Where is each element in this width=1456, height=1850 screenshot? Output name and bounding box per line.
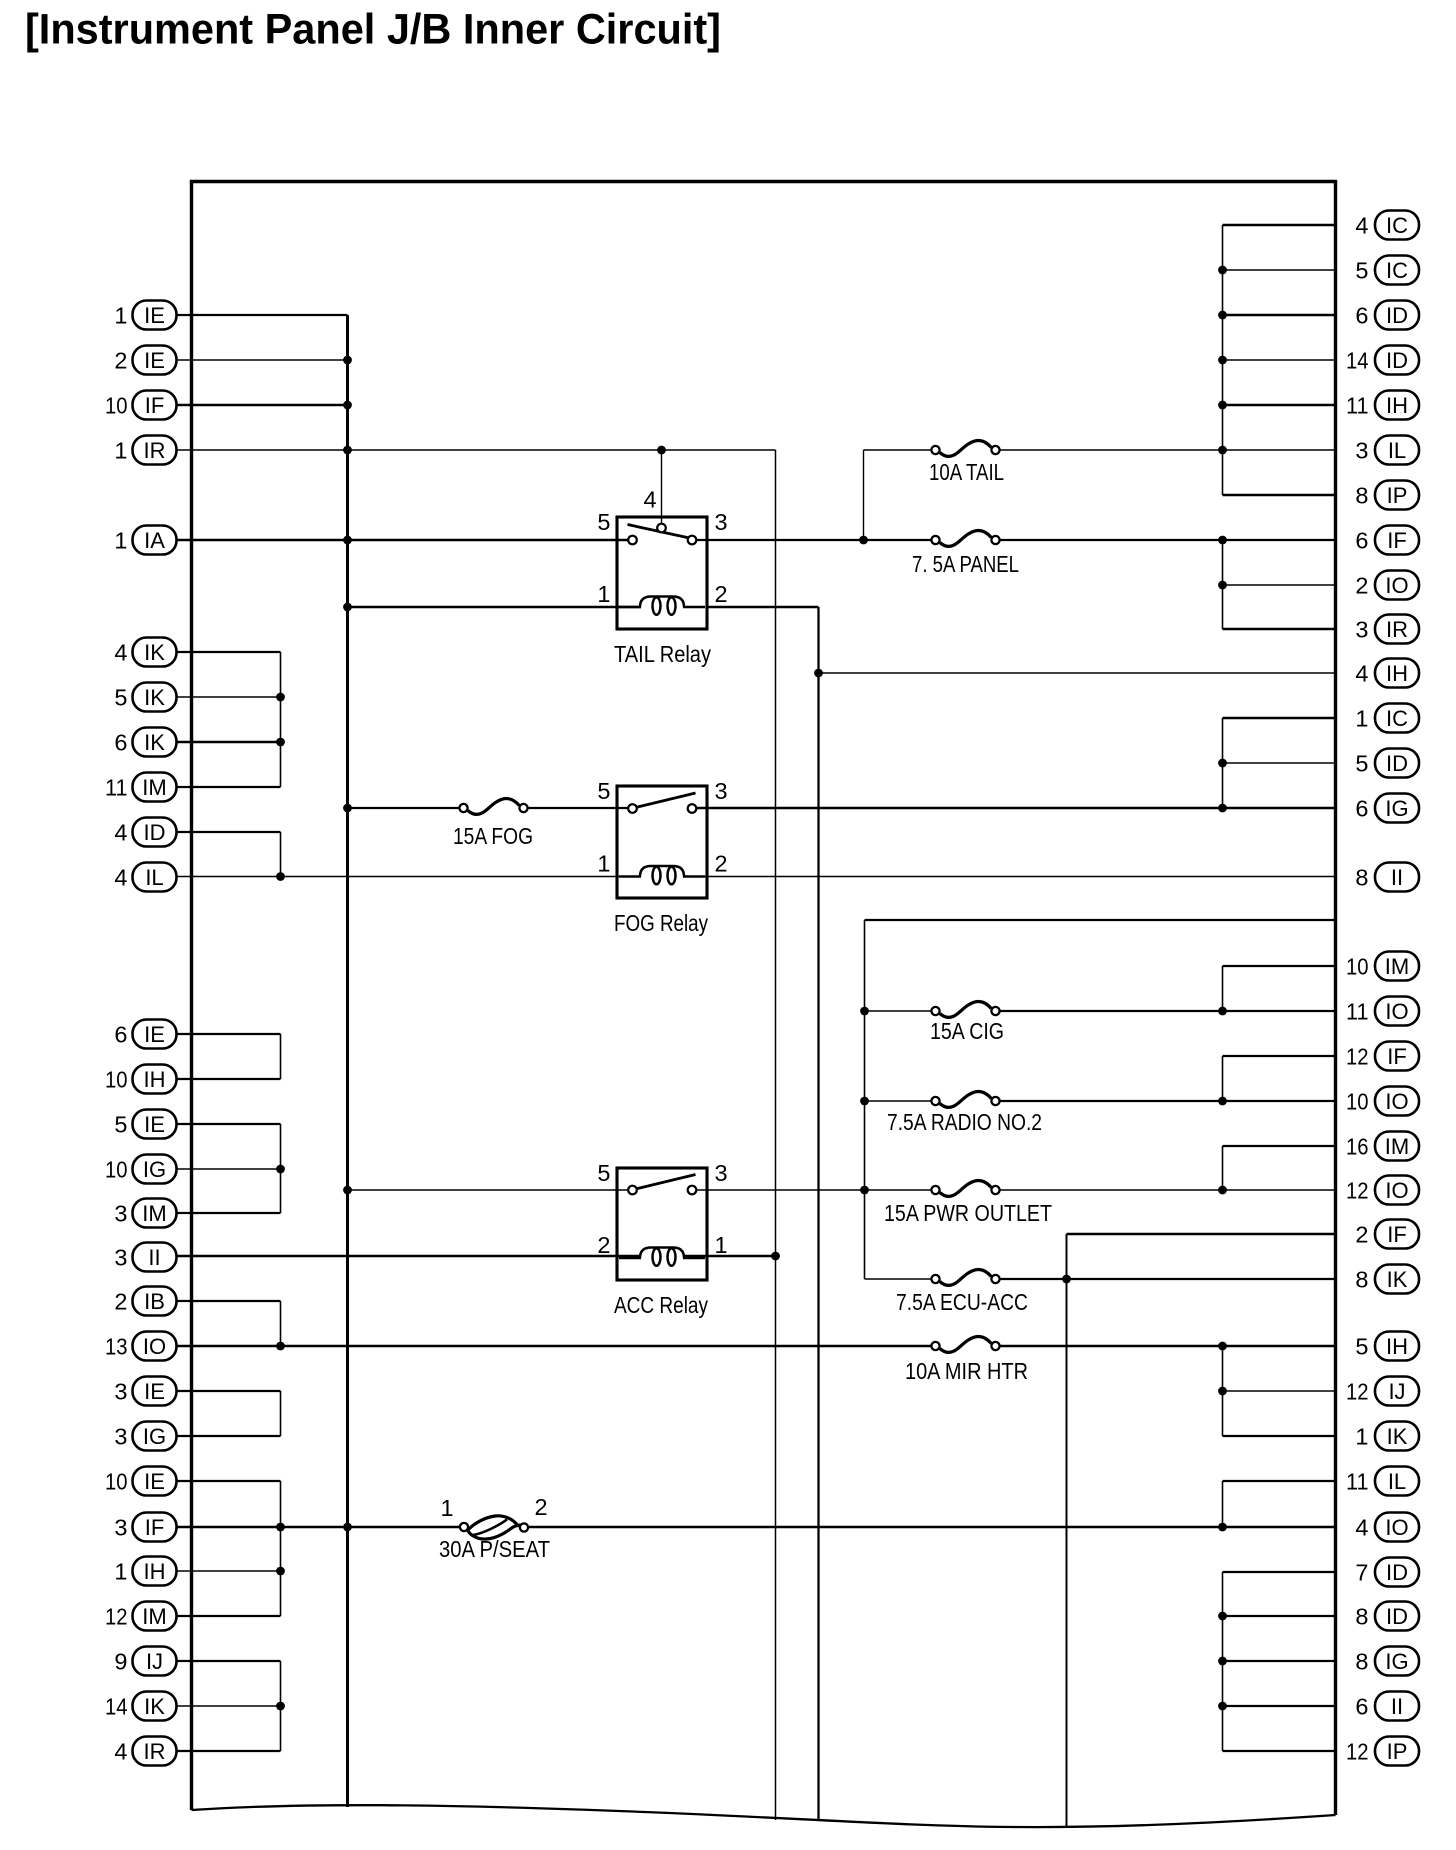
junction: vertical x=818 / 4 IH row (814, 669, 823, 678)
connector pin 6 ID (R) (1355, 301, 1419, 330)
junction: bracket / 2 IO (1218, 581, 1227, 590)
connector pin 5 IH (R) (1355, 1332, 1419, 1361)
wire: FOG relay pin 2 out to 8 II pin (683, 876, 1336, 878)
wire: pin 11 IM stub (177, 786, 281, 788)
svg-text:8: 8 (1355, 865, 1368, 891)
svg-text:IO: IO (1385, 1089, 1408, 1114)
svg-text:IF: IF (1387, 1222, 1407, 1247)
wire: pin 4 IL row to FOG relay coil (177, 876, 641, 878)
svg-text:3: 3 (715, 509, 728, 535)
svg-text:8: 8 (1355, 483, 1368, 509)
connector pin 1 IK (R) (1355, 1422, 1419, 1451)
relay ACC Relay: coil winding (619, 1248, 705, 1266)
fusible link 30A P/SEAT (460, 1516, 528, 1539)
svg-text:3: 3 (114, 1245, 127, 1271)
connector pin 3 IG (L) (114, 1422, 176, 1451)
J/B boundary box: top edge (190, 180, 1337, 183)
svg-text:1: 1 (597, 851, 610, 877)
svg-text:1: 1 (440, 1495, 453, 1521)
wire: 10A TAIL feeder top corner to fuse (864, 449, 933, 451)
connector pin 2 IF (R) (1355, 1220, 1419, 1249)
svg-text:3: 3 (1355, 617, 1368, 643)
svg-text:IL: IL (1388, 438, 1406, 463)
svg-text:2: 2 (114, 348, 127, 374)
junction: bracket / 12 IJ (1218, 1387, 1227, 1396)
wire: 4 IH row (819, 672, 1336, 674)
relay FOG Relay: coil winding (619, 866, 705, 884)
svg-text:IH: IH (144, 1067, 166, 1092)
relay FOG Relay: switch contact pin 3 (688, 804, 697, 813)
wire: pin 13 IO row to 10A MIR HTR fuse (177, 1345, 932, 1348)
connector pin 3 IM (L) (114, 1199, 176, 1228)
wire: 15A PWR OUTLET fuse out to 12 IO pin (999, 1189, 1336, 1191)
connector pin 2 IB (L) (114, 1287, 176, 1316)
svg-text:IP: IP (1387, 1739, 1408, 1764)
connector pin 3 IF (L) (114, 1513, 176, 1542)
connector pin 8 IG (R) (1355, 1647, 1419, 1676)
connector pin 4 IK (L) (114, 638, 176, 667)
wire: pin 1 IR row to vertical at x=775 (177, 449, 776, 451)
svg-text:2: 2 (715, 851, 728, 877)
svg-text:ID: ID (1386, 751, 1408, 776)
junction: MIR HTR row / right bracket (1218, 1342, 1227, 1351)
svg-text:5: 5 (114, 685, 127, 711)
connector pin 11 IM (L) (105, 773, 177, 802)
wire: pin 4 IC stub (1223, 224, 1336, 227)
svg-text:IM: IM (1385, 1134, 1409, 1159)
svg-text:15A PWR OUTLET: 15A PWR OUTLET (884, 1200, 1052, 1226)
svg-text:8: 8 (1355, 1604, 1368, 1630)
junction: bus / 2 IE (343, 356, 352, 365)
svg-text:5: 5 (597, 509, 610, 535)
wire: left bracket 10IE-12IM (280, 1481, 282, 1616)
svg-text:IE: IE (144, 1469, 165, 1494)
wire: pin 10 IG stub (177, 1168, 281, 1170)
svg-text:II: II (1391, 865, 1403, 890)
relay TAIL Relay: coil winding (619, 597, 705, 615)
wire: pin 14 ID stub (1223, 359, 1336, 361)
wire: pin 6 IK stub (177, 741, 281, 744)
svg-text:10: 10 (1346, 1089, 1369, 1115)
J/B boundary box: right edge (1334, 182, 1337, 1816)
wire: pin 8 IP stub (1223, 494, 1336, 497)
connector pin 12 IP (R) (1346, 1737, 1419, 1766)
svg-text:4: 4 (114, 820, 127, 846)
svg-text:IR: IR (1386, 617, 1408, 642)
wire: 7.5A PANEL fuse out to 6 IF pin (999, 539, 1336, 541)
wire: FOG relay pin 3 out to 6 IG pin (696, 807, 1336, 810)
wire: pin 7 ID stub (1223, 1571, 1336, 1573)
connector pin 4 IC (R) (1355, 211, 1419, 240)
connector pin 14 ID (R) (1346, 346, 1419, 375)
wire: pin 2 IB stub (177, 1300, 281, 1302)
junction: PANEL row / right bracket (1218, 536, 1227, 545)
connector pin 12 IF (R) (1346, 1042, 1419, 1071)
svg-text:IK: IK (144, 1694, 165, 1719)
connector pin 5 IK (L) (114, 683, 176, 712)
svg-text:1: 1 (715, 1232, 728, 1258)
junction: bracket / 8 IG (1218, 1657, 1227, 1666)
svg-text:10: 10 (105, 1469, 128, 1495)
wire: main bus vertical (net from 1 IE down left side) (346, 315, 349, 1807)
wire: ACC relay pin 3 out to fuse bank feeder (696, 1189, 865, 1191)
svg-text:12: 12 (1346, 1178, 1369, 1204)
svg-text:8: 8 (1355, 1267, 1368, 1293)
wire: vertical x=775 (1 IR net down to ACC coil and bottom) (775, 450, 777, 1820)
svg-text:IO: IO (1385, 573, 1408, 598)
svg-text:1: 1 (114, 528, 127, 554)
fuse 7.5A PANEL (931, 530, 999, 546)
connector pin 12 IM (L) (105, 1602, 177, 1631)
wire: pin 5 IK stub (177, 696, 281, 698)
svg-text:IO: IO (1385, 999, 1408, 1024)
svg-text:ID: ID (1386, 1604, 1408, 1629)
svg-text:12: 12 (1346, 1379, 1369, 1405)
junction: bracket / 6 ID (1218, 311, 1227, 320)
svg-text:IJ: IJ (146, 1649, 163, 1674)
wire: 15A CIG fuse out to 11 IO pin (999, 1010, 1336, 1012)
connector pin 16 IM (R) (1346, 1132, 1419, 1161)
svg-text:ACC Relay: ACC Relay (614, 1292, 708, 1318)
svg-text:7. 5A PANEL: 7. 5A PANEL (912, 551, 1019, 577)
wire: pin 3 IR stub (1223, 628, 1336, 631)
svg-text:IH: IH (144, 1559, 166, 1584)
wire: pin 12 IP stub (1223, 1750, 1336, 1752)
svg-text:IF: IF (1387, 528, 1407, 553)
junction: FOG out row / right bracket (1218, 804, 1227, 813)
svg-text:6: 6 (1355, 303, 1368, 329)
svg-text:TAIL Relay: TAIL Relay (614, 641, 711, 667)
svg-text:1: 1 (114, 303, 127, 329)
connector pin 6 IG (R) (1355, 794, 1419, 823)
connector pin 5 IE (L) (114, 1110, 176, 1139)
svg-text:IK: IK (1387, 1424, 1408, 1449)
wire: right bracket 12IF-10IO (1222, 1056, 1224, 1101)
fuse 7.5A RADIO NO.2 (931, 1091, 999, 1107)
svg-text:2: 2 (597, 1232, 610, 1258)
svg-text:IK: IK (1387, 1267, 1408, 1292)
junction: PWR OUTLET row / right bracket (1218, 1186, 1227, 1195)
svg-text:IG: IG (143, 1424, 166, 1449)
wire: pin 4 ID stub (177, 831, 281, 833)
svg-text:2: 2 (534, 1494, 547, 1520)
connector pin 2 IE (L) (114, 346, 176, 375)
connector pin 1 IE (L) (114, 301, 176, 330)
svg-text:3: 3 (715, 1160, 728, 1186)
svg-text:IL: IL (145, 865, 163, 890)
connector pin 8 ID (R) (1355, 1602, 1419, 1631)
relay TAIL Relay: switch blade (628, 525, 690, 539)
junction: bus / TAIL coil row (343, 603, 352, 612)
wire: 30A P/SEAT fuse out to 4 IO pin (528, 1526, 1336, 1529)
connector pin 4 IH (R) (1355, 659, 1419, 688)
wire: left bracket 4ID-4IL (280, 832, 282, 877)
wire: left bracket 2IB-13IO (280, 1301, 282, 1346)
junction: bus / ACC switch feed (343, 1186, 352, 1195)
svg-text:IR: IR (144, 1739, 166, 1764)
svg-text:IK: IK (144, 685, 165, 710)
wire: right bracket 4IC-8IP (1222, 225, 1224, 495)
wire: ACC relay coil pin 1 out to vertical x=775 (683, 1255, 776, 1258)
svg-text:IO: IO (1385, 1178, 1408, 1203)
wire: pin 10 IH stub (177, 1078, 281, 1080)
wire: right bracket 5IH-1IK (1222, 1346, 1224, 1436)
wire: 10A MIR HTR fuse out to 5 IH pin (999, 1345, 1336, 1348)
wire: pin 8 ID stub (1223, 1615, 1336, 1617)
connector pin 11 IO (R) (1346, 997, 1419, 1026)
fuse 10A TAIL (931, 440, 999, 456)
junction: bracket / 3 IF row (276, 1523, 285, 1532)
svg-text:7.5A ECU-ACC: 7.5A ECU-ACC (896, 1289, 1028, 1315)
relay TAIL Relay: case (617, 517, 707, 629)
connector pin 10 IG (L) (105, 1155, 177, 1184)
svg-text:3: 3 (1355, 438, 1368, 464)
wire: TAIL relay pin 4 drop (661, 450, 663, 527)
svg-text:10: 10 (105, 1067, 128, 1093)
svg-text:5: 5 (1355, 751, 1368, 777)
svg-text:IB: IB (144, 1289, 165, 1314)
wire: left bracket 6IE-10IH (280, 1034, 282, 1079)
svg-text:11: 11 (1346, 393, 1369, 419)
svg-text:6: 6 (1355, 528, 1368, 554)
svg-text:IC: IC (1386, 258, 1408, 283)
junction: bracket / 14 IK (276, 1702, 285, 1711)
junction: bracket / 5 IK (276, 693, 285, 702)
connector pin 6 II (R) (1355, 1692, 1419, 1721)
connector pin 10 IF (L) (105, 391, 177, 420)
svg-text:11: 11 (1346, 1469, 1369, 1495)
wire: left bracket 9IJ-4IR (280, 1661, 282, 1751)
svg-text:IM: IM (1385, 954, 1409, 979)
svg-text:IG: IG (1385, 1649, 1408, 1674)
junction: bus / FOG fuse row (343, 804, 352, 813)
wire: pin 16 IM stub (1223, 1145, 1336, 1147)
connector pin 5 IC (R) (1355, 256, 1419, 285)
connector pin 12 IO (R) (1346, 1176, 1419, 1205)
wire: pin 10 IE stub (177, 1480, 281, 1482)
wire: left bracket 5IE-3IM (280, 1124, 282, 1213)
wire: feeder to 7.5A RADIO fuse (865, 1100, 933, 1102)
wire: bus to 15A FOG fuse (348, 807, 461, 809)
wire: 15A FOG fuse out to FOG relay pin 5 (527, 807, 628, 809)
svg-text:IJ: IJ (1388, 1379, 1405, 1404)
wire: right bracket 11IL-4IO (1222, 1481, 1224, 1527)
fuse 7.5A ECU-ACC (931, 1269, 999, 1285)
wire: pin 12 IM stub (177, 1615, 281, 1617)
svg-text:10: 10 (105, 1157, 128, 1183)
svg-text:1: 1 (114, 1559, 127, 1585)
connector pin 14 IK (L) (105, 1692, 177, 1721)
svg-text:ID: ID (144, 820, 166, 845)
wire: pin 1 IC stub (1223, 717, 1336, 720)
svg-text:IM: IM (142, 1604, 166, 1629)
wire: pin 1 IK stub (1223, 1435, 1336, 1437)
connector pin 7 ID (R) (1355, 1558, 1419, 1587)
relay TAIL Relay: switch contact pin 5 (628, 536, 637, 545)
wire: 10A TAIL feeder vertical x=863 (863, 450, 865, 540)
svg-text:IK: IK (144, 640, 165, 665)
connector pin 11 IH (R) (1346, 391, 1419, 420)
junction: 1 IR row / TAIL relay pin 4 drop (657, 446, 666, 455)
connector pin 6 IF (R) (1355, 526, 1419, 555)
svg-text:IO: IO (1385, 1515, 1408, 1540)
svg-text:2: 2 (715, 581, 728, 607)
wire: pin 1 IE stub to bus (177, 314, 348, 316)
J/B boundary box: wavy bottom edge (192, 1805, 1336, 1827)
svg-text:IF: IF (145, 1515, 165, 1540)
svg-text:14: 14 (105, 1694, 128, 1720)
junction: CIG row / right bracket (1218, 1007, 1227, 1016)
fuse 15A PWR OUTLET (931, 1180, 999, 1196)
svg-text:4: 4 (643, 487, 656, 513)
svg-text:IE: IE (144, 1112, 165, 1137)
svg-text:[Instrument Panel J/B Inner Ci: [Instrument Panel J/B Inner Circuit] (25, 7, 721, 54)
svg-text:11: 11 (105, 775, 128, 801)
svg-text:3: 3 (715, 778, 728, 804)
svg-text:2: 2 (114, 1289, 127, 1315)
svg-text:IM: IM (142, 775, 166, 800)
svg-text:IH: IH (1386, 661, 1408, 686)
wire: TAIL relay pin 2 out to vertical x=818 (707, 606, 819, 609)
svg-text:IP: IP (1387, 483, 1408, 508)
relay ACC Relay: switch blade (636, 1175, 696, 1190)
relay TAIL Relay: switch contact pin 3 (688, 536, 697, 545)
junction: bracket / 10 IG (276, 1165, 285, 1174)
connector pin 1 IA (L) (114, 526, 176, 555)
svg-text:4: 4 (114, 640, 127, 666)
svg-text:IO: IO (143, 1334, 166, 1359)
wire: pin 10 IF stub (177, 404, 348, 407)
connector pin 5 ID (R) (1355, 749, 1419, 778)
connector pin 3 IE (L) (114, 1377, 176, 1406)
wire: right bracket 1IC-6IG (1222, 718, 1224, 808)
svg-text:IE: IE (144, 303, 165, 328)
junction: bracket / 6 II (1218, 1702, 1227, 1711)
wire: pin 1 IA row to TAIL relay pin 5 (177, 539, 628, 542)
junction: bracket / 1 IH (276, 1567, 285, 1576)
connector pin 3 IR (R) (1355, 615, 1419, 644)
junction: bracket / 5 ID (1218, 759, 1227, 768)
junction: fuse bank feeder / ACC out (860, 1186, 869, 1195)
relay FOG Relay: switch blade (636, 793, 696, 808)
svg-text:13: 13 (105, 1334, 128, 1360)
svg-text:10A TAIL: 10A TAIL (929, 459, 1004, 485)
svg-text:IF: IF (145, 393, 165, 418)
wire: right bracket 6IF-3IR (1222, 540, 1224, 629)
svg-text:IG: IG (143, 1157, 166, 1182)
wire: pin 12 IF stub (1223, 1055, 1336, 1057)
wire: pin 9 IJ stub (177, 1660, 281, 1662)
svg-text:ID: ID (1386, 1560, 1408, 1585)
wire: pin 2 IO stub (1223, 584, 1336, 586)
connector pin 10 IH (L) (105, 1065, 177, 1094)
junction: feeder / 15A CIG (860, 1007, 869, 1016)
connector pin 3 II (L) (114, 1243, 176, 1272)
svg-text:4: 4 (1355, 661, 1368, 687)
wire: pin 12 IJ stub (1223, 1390, 1336, 1392)
svg-text:IF: IF (1387, 1044, 1407, 1069)
svg-text:IC: IC (1386, 213, 1408, 238)
svg-text:14: 14 (1346, 348, 1369, 374)
wire: pin 14 IK stub (177, 1705, 281, 1707)
svg-text:ID: ID (1386, 348, 1408, 373)
svg-text:II: II (1391, 1694, 1403, 1719)
J/B boundary box: left edge (190, 182, 193, 1811)
svg-text:1: 1 (1355, 706, 1368, 732)
fuse 10A MIR HTR (931, 1336, 999, 1352)
wire: 10A TAIL fuse out to 3 IL pin (999, 449, 1336, 451)
connector pin 3 IL (R) (1355, 436, 1419, 465)
junction: PANEL row / 10A TAIL feeder (859, 536, 868, 545)
wire: feeder to 15A PWR OUTLET fuse (865, 1189, 933, 1191)
svg-text:5: 5 (597, 778, 610, 804)
wire: right bracket 10IM-11IO (1222, 966, 1224, 1011)
svg-text:IC: IC (1386, 706, 1408, 731)
wire: left bracket 4IK-11IM (280, 652, 282, 787)
wire: fuse bank top feeder at y=920 from border (865, 919, 1336, 921)
svg-text:7: 7 (1355, 1560, 1368, 1586)
wire: left bracket 3IE-3IG (280, 1391, 282, 1436)
junction: bus / 1 IA (343, 536, 352, 545)
wire: pin 6 ID stub (1223, 314, 1336, 317)
wire: pin 3 IF row to 30A P/SEAT fuse (177, 1526, 460, 1529)
wire: right bracket 7ID-12IP (1222, 1572, 1224, 1751)
svg-text:IH: IH (1386, 393, 1408, 418)
connector pin 10 IE (L) (105, 1467, 177, 1496)
svg-text:IL: IL (1388, 1469, 1406, 1494)
svg-text:6: 6 (114, 730, 127, 756)
wire: fuse bank feeder vertical x=864 (864, 920, 866, 1279)
wire: pin 6 IE stub (177, 1033, 281, 1035)
junction: P/SEAT row / right bracket (1218, 1523, 1227, 1532)
wire: 7.5A RADIO fuse out to 10 IO pin (999, 1100, 1336, 1102)
junction: ECU-ACC row / vertical x=1066 (1062, 1275, 1071, 1284)
junction: bus / 10 IF (343, 401, 352, 410)
wire: pin 6 II stub (1223, 1705, 1336, 1707)
junction: bracket / 8 ID (1218, 1612, 1227, 1621)
connector pin 4 IR (L) (114, 1737, 176, 1766)
wire: pin 2 IE stub (177, 359, 348, 361)
wire: pin 11 IL stub (1223, 1480, 1336, 1482)
connector pin 4 IO (R) (1355, 1513, 1419, 1542)
svg-text:4: 4 (1355, 1515, 1368, 1541)
svg-text:IE: IE (144, 348, 165, 373)
wire: pin 4 IR stub (177, 1750, 281, 1752)
relay ACC Relay: switch contact pin 3 (688, 1186, 697, 1195)
svg-text:IE: IE (144, 1022, 165, 1047)
wire: 2 IF row from vertical x=1066 (1067, 1233, 1336, 1236)
wire: right bracket 16IM-12IO (1222, 1146, 1224, 1190)
connector pin 11 IL (R) (1346, 1467, 1419, 1496)
connector pin 13 IO (L) (105, 1332, 177, 1361)
svg-text:9: 9 (114, 1649, 127, 1675)
wire: pin 5 IC stub (1223, 269, 1336, 271)
svg-text:10A MIR HTR: 10A MIR HTR (905, 1358, 1028, 1384)
junction: vertical x=775 / ACC coil pin 1 (771, 1252, 780, 1261)
wire: vertical x=1066 (ECU-ACC net to 2 IF and bottom) (1066, 1234, 1068, 1827)
wire: pin 3 IE stub (177, 1390, 281, 1392)
svg-text:ID: ID (1386, 303, 1408, 328)
wire: pin 4 IK stub (177, 651, 281, 653)
svg-text:3: 3 (114, 1424, 127, 1450)
junction: bus / 3 IF row (343, 1523, 352, 1532)
relay ACC Relay: case (617, 1168, 707, 1280)
svg-text:12: 12 (1346, 1739, 1369, 1765)
wire: pin 8 IG stub (1223, 1660, 1336, 1662)
svg-text:12: 12 (105, 1604, 128, 1630)
svg-text:3: 3 (114, 1201, 127, 1227)
svg-text:6: 6 (114, 1022, 127, 1048)
